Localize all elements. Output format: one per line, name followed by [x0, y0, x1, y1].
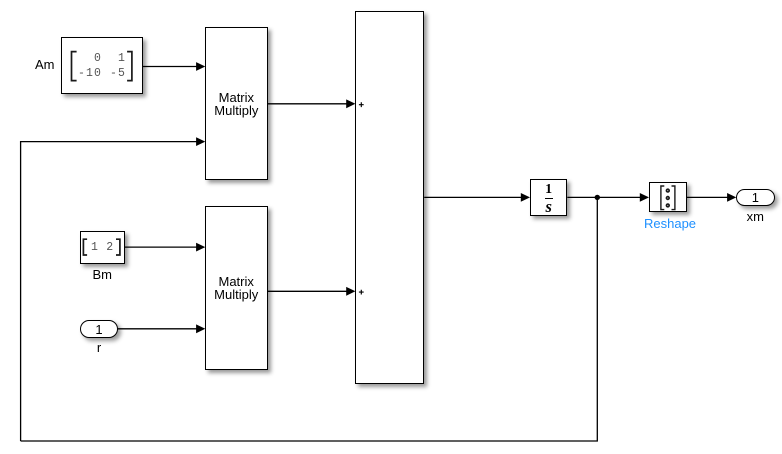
- Bm matrix values: [91, 241, 114, 255]
- label r: [80, 341, 118, 354]
- label Bm: [80, 268, 125, 281]
- reshape block: [649, 182, 687, 212]
- wire Reshape out to xm: [687, 196, 729, 198]
- matrix multiply block 1: [205, 27, 268, 180]
- wire MatrixMultiply2 out to Sum in2: [268, 290, 348, 292]
- arrowhead into Reshape: [640, 193, 649, 202]
- constant block Am: [61, 37, 143, 94]
- plus sign sum in1: [359, 102, 364, 294]
- outport xm: [736, 189, 775, 207]
- wire feedback down from junction: [21, 197, 598, 441]
- integrator block 1/s: [530, 179, 567, 216]
- arrowhead into xm: [727, 193, 736, 202]
- wire MatrixMultiply1 out to Sum in1: [268, 103, 348, 105]
- arrowhead into Integrator: [521, 193, 530, 202]
- arrowhead into MatrixMultiply2 in1: [196, 243, 205, 252]
- inport r: [80, 320, 118, 338]
- sum block: [355, 11, 424, 384]
- arrowhead into MatrixMultiply1 in1: [196, 62, 205, 71]
- plus sign sum in2: [359, 290, 364, 295]
- Am matrix brackets: [72, 52, 132, 81]
- label Am: [35, 58, 55, 71]
- wire feedback into MatrixMultiply1 in2: [21, 142, 198, 441]
- label xm: [736, 210, 775, 223]
- junction dot: [595, 195, 600, 200]
- constant block Bm: [80, 231, 125, 264]
- matrix multiply block 2: [205, 206, 267, 370]
- arrowhead into MatrixMultiply2 in2: [196, 324, 205, 333]
- wire Integrator out to Reshape: [567, 196, 641, 198]
- wire r to MatrixMultiply2 in2: [118, 328, 198, 330]
- arrowhead into Sum in2: [346, 287, 355, 296]
- Bm matrix brackets: [83, 239, 120, 255]
- arrowhead into MatrixMultiply1 in2: [196, 137, 205, 146]
- Reshape icon: [661, 186, 675, 210]
- wire Sum out to Integrator: [424, 196, 522, 198]
- arrowhead into Sum in1: [346, 99, 355, 108]
- Am matrix values: [78, 51, 126, 81]
- wire Am to MatrixMultiply1 in1: [143, 66, 198, 68]
- label Reshape: [644, 217, 696, 230]
- wire Bm to MatrixMultiply2 in1: [125, 246, 198, 248]
